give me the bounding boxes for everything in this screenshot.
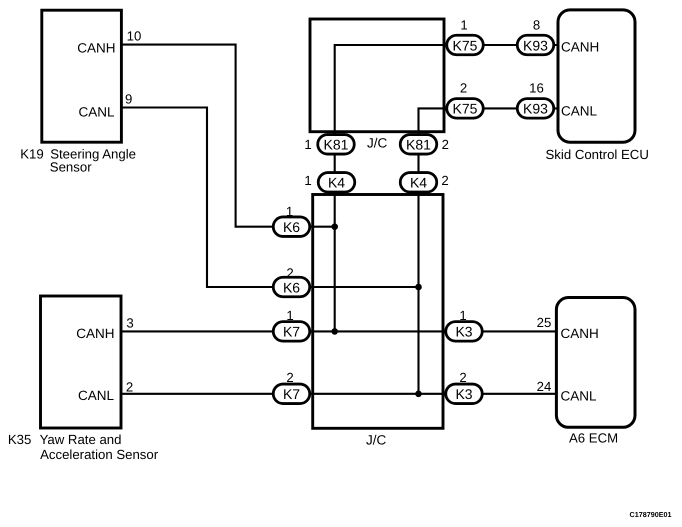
svg-text:CANL: CANL <box>561 388 598 403</box>
svg-text:CANL: CANL <box>78 105 115 120</box>
svg-text:2: 2 <box>442 137 449 152</box>
svg-text:Sensor: Sensor <box>50 160 92 175</box>
svg-text:1: 1 <box>304 137 311 152</box>
svg-text:CANH: CANH <box>77 41 115 56</box>
svg-text:K7: K7 <box>283 386 300 402</box>
svg-text:1: 1 <box>286 204 293 219</box>
svg-text:K7: K7 <box>283 324 300 340</box>
svg-text:2: 2 <box>441 173 448 188</box>
svg-text:J/C: J/C <box>366 432 387 447</box>
svg-text:9: 9 <box>125 92 132 107</box>
svg-text:2: 2 <box>126 380 133 395</box>
svg-text:CANH: CANH <box>76 326 114 341</box>
svg-text:K6: K6 <box>283 279 300 295</box>
svg-text:K35: K35 <box>8 432 31 447</box>
svg-text:1: 1 <box>304 173 311 188</box>
svg-text:CANH: CANH <box>561 326 599 341</box>
svg-text:J/C: J/C <box>367 135 388 150</box>
svg-text:CANL: CANL <box>78 388 115 403</box>
svg-text:2: 2 <box>286 370 293 385</box>
svg-text:CANL: CANL <box>561 104 598 119</box>
svg-text:K6: K6 <box>283 219 300 235</box>
svg-text:Yaw Rate and: Yaw Rate and <box>40 432 122 447</box>
svg-text:1: 1 <box>286 308 293 323</box>
svg-text:16: 16 <box>529 81 544 96</box>
svg-text:10: 10 <box>127 29 142 44</box>
svg-text:2: 2 <box>460 81 467 96</box>
svg-text:K4: K4 <box>410 175 427 191</box>
svg-text:K81: K81 <box>406 137 431 153</box>
svg-text:Skid Control ECU: Skid Control ECU <box>546 147 649 162</box>
svg-text:K3: K3 <box>455 324 472 340</box>
svg-text:1: 1 <box>460 18 467 33</box>
svg-text:A6 ECM: A6 ECM <box>569 431 618 446</box>
svg-text:1: 1 <box>459 308 466 323</box>
svg-text:3: 3 <box>126 315 133 330</box>
svg-text:K93: K93 <box>523 37 548 53</box>
svg-text:CANH: CANH <box>561 40 599 55</box>
svg-text:K3: K3 <box>455 386 472 402</box>
svg-text:2: 2 <box>286 265 293 280</box>
svg-text:K93: K93 <box>523 101 548 117</box>
svg-text:K4: K4 <box>328 175 345 191</box>
svg-text:K81: K81 <box>324 137 349 153</box>
svg-text:C178790E01: C178790E01 <box>630 510 672 519</box>
svg-text:25: 25 <box>537 315 552 330</box>
svg-text:K19: K19 <box>20 146 43 161</box>
svg-text:K75: K75 <box>453 101 478 117</box>
svg-text:8: 8 <box>533 18 540 33</box>
svg-text:24: 24 <box>537 379 552 394</box>
svg-text:2: 2 <box>459 370 466 385</box>
svg-text:Acceleration Sensor: Acceleration Sensor <box>40 447 159 462</box>
svg-text:K75: K75 <box>453 37 478 53</box>
